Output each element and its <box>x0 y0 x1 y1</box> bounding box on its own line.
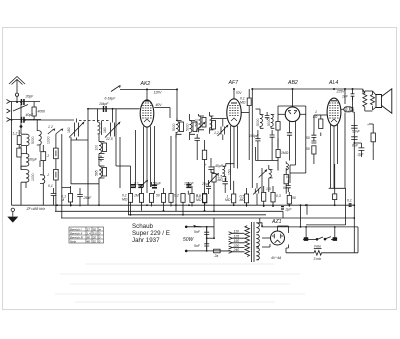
IF transformer 3 <box>255 109 280 161</box>
top line cap <box>351 89 355 100</box>
resistor 4000 <box>32 107 36 116</box>
svg-text:52: 52 <box>93 239 97 243</box>
svg-text:Netz: Netz <box>70 239 76 243</box>
vertical right of AK2 <box>176 89 178 120</box>
svg-text:1000: 1000 <box>31 173 35 181</box>
trimmer 6-18 <box>111 86 120 92</box>
capacitor 0.1a <box>131 184 136 186</box>
resistor R-in <box>17 136 21 145</box>
svg-text:5000: 5000 <box>186 123 190 131</box>
misc verticals <box>128 164 334 227</box>
extra caps on buses <box>281 204 352 209</box>
svg-text:0,2: 0,2 <box>174 194 179 198</box>
svg-text:46: 46 <box>87 239 91 243</box>
coil T3b <box>271 115 273 129</box>
coil choke <box>222 166 226 176</box>
svg-text:3 mb: 3 mb <box>314 257 322 261</box>
svg-text:AZ1: AZ1 <box>271 219 282 225</box>
coil T1b <box>190 121 192 135</box>
var arrow AK2 cathode <box>140 180 148 187</box>
wires <box>176 118 178 121</box>
svg-text:4V~4A: 4V~4A <box>271 256 282 260</box>
svg-text:100: 100 <box>95 145 99 151</box>
svg-text:J: J <box>46 154 49 158</box>
svg-text:ZF=468 kHz: ZF=468 kHz <box>26 207 46 211</box>
coil L3 <box>21 170 29 183</box>
wire <box>10 101 40 103</box>
resistor grid stopper <box>319 119 323 129</box>
svg-text:5nF: 5nF <box>194 244 201 248</box>
svg-text:240: 240 <box>233 248 240 252</box>
tube AL4 <box>327 98 341 126</box>
svg-text:AF7: AF7 <box>228 80 240 86</box>
tube AB2 <box>285 107 300 122</box>
coil L7 <box>99 142 101 154</box>
bus 3 <box>128 214 266 216</box>
resistor <box>312 146 316 154</box>
capacitor 100p <box>255 130 260 145</box>
svg-text:40V: 40V <box>156 103 163 107</box>
svg-text:+: + <box>205 163 207 167</box>
svg-text:50: 50 <box>306 147 310 151</box>
capacitor <box>265 112 270 120</box>
svg-text:0,65: 0,65 <box>345 107 355 113</box>
svg-text:160: 160 <box>103 127 107 133</box>
antenna <box>9 77 25 94</box>
svg-text:2a: 2a <box>214 254 219 258</box>
svg-text:5000: 5000 <box>31 136 35 144</box>
svg-text:20pF: 20pF <box>25 95 35 99</box>
svg-text:25nF: 25nF <box>83 196 93 200</box>
resistor <box>169 194 173 203</box>
coil L6 <box>98 122 100 134</box>
wire left vertical <box>11 102 13 206</box>
AZ1 <box>271 231 285 245</box>
svg-text:5nF: 5nF <box>194 230 201 234</box>
AZ1 bottom wire <box>286 245 289 253</box>
B+ top bus <box>234 89 363 188</box>
resistor <box>276 122 280 131</box>
svg-text:150: 150 <box>228 169 232 175</box>
bus 2 <box>55 210 283 212</box>
capacitor 5n <box>286 180 291 192</box>
capacitor 40uF el <box>208 158 213 172</box>
coil 5000 <box>371 133 375 142</box>
capacitor 50 <box>270 130 275 140</box>
wires below <box>131 202 205 215</box>
svg-text:5n: 5n <box>283 186 287 190</box>
bottom right rect <box>278 227 359 255</box>
resistor <box>149 194 153 203</box>
svg-text:125: 125 <box>234 235 240 239</box>
svg-text:70V: 70V <box>236 91 243 95</box>
svg-text:50: 50 <box>156 194 160 198</box>
caps 5nF <box>204 227 209 244</box>
var arrow small <box>259 170 267 178</box>
capacitor <box>311 141 316 143</box>
svg-text:1 2: 1 2 <box>48 125 53 129</box>
cathode oval <box>344 107 353 112</box>
wires <box>97 109 99 122</box>
capacitor 0.5 <box>51 188 57 205</box>
field box <box>329 187 346 189</box>
svg-text:AK2: AK2 <box>140 81 151 87</box>
switch blade mains <box>194 225 201 227</box>
svg-text:kΩ: kΩ <box>313 115 318 119</box>
right edge <box>357 227 359 253</box>
table <box>69 227 104 243</box>
resistor <box>202 194 206 203</box>
variable capacitor trim <box>218 125 229 136</box>
bus 4 <box>61 217 355 219</box>
vertical right of AL4 <box>352 96 354 112</box>
capacitor right bus <box>349 204 352 206</box>
svg-text:5000: 5000 <box>267 118 271 126</box>
svg-text:150: 150 <box>234 239 240 243</box>
bottom row left caps <box>51 186 83 207</box>
svg-text:MΩ: MΩ <box>240 101 246 105</box>
taps <box>229 232 233 254</box>
svg-text:AB2: AB2 <box>287 80 298 86</box>
coil L8 <box>99 166 101 178</box>
svg-text:50: 50 <box>306 136 310 140</box>
osc coils <box>98 109 121 205</box>
resistor 0.1M <box>128 194 132 203</box>
wire AF7 pins <box>230 126 232 190</box>
svg-text:MΩ: MΩ <box>218 178 224 182</box>
wires <box>39 145 41 152</box>
switch S1 <box>48 129 55 134</box>
svg-text:8µF: 8µF <box>352 143 359 147</box>
capacitor 2uF det <box>281 207 284 209</box>
coil L2 <box>21 154 29 167</box>
AZ1 details <box>259 218 289 247</box>
svg-text:1MΩ: 1MΩ <box>281 151 289 155</box>
resistor 1M <box>139 194 143 203</box>
capacitor 50n <box>311 131 316 141</box>
volume pot <box>212 174 216 183</box>
svg-text:1M: 1M <box>134 194 139 198</box>
svg-text:+: + <box>367 123 369 127</box>
speaker wires <box>363 89 376 111</box>
tuning gang <box>62 109 120 205</box>
left antenna coils <box>17 104 74 205</box>
resistor <box>271 192 275 202</box>
capacitor 10n <box>206 180 211 194</box>
resistor row <box>128 126 206 215</box>
output transformer <box>363 89 375 107</box>
svg-text:0,1: 0,1 <box>48 184 53 188</box>
svg-text:2µF: 2µF <box>285 208 293 212</box>
speaker <box>376 89 392 113</box>
coil det <box>269 170 273 178</box>
svg-text:6-18µF: 6-18µF <box>105 97 117 101</box>
gang dashed link <box>79 120 110 122</box>
transformer power <box>245 222 260 262</box>
svg-text:1: 1 <box>315 110 317 114</box>
resistor right <box>333 194 337 200</box>
coil T3a <box>260 115 262 129</box>
svg-text:2µF: 2µF <box>357 153 365 157</box>
svg-text:0,1: 0,1 <box>134 182 139 186</box>
svg-text:565: 565 <box>95 170 99 176</box>
svg-text:0,3: 0,3 <box>276 194 281 198</box>
mid line <box>303 238 316 240</box>
wires <box>20 146 22 148</box>
capacitor 100 <box>186 184 191 186</box>
svg-text:M: M <box>61 198 64 202</box>
svg-text:0,1: 0,1 <box>347 199 352 203</box>
resistor <box>244 194 248 203</box>
svg-text:5000: 5000 <box>256 118 260 126</box>
switch blade <box>13 105 28 112</box>
svg-text:50W: 50W <box>183 237 195 243</box>
fuse zigzag <box>314 250 321 255</box>
mains switch <box>185 227 231 251</box>
AK2 lower wiring <box>116 109 151 194</box>
resistor <box>181 194 185 203</box>
capacitor 20pF <box>21 99 25 105</box>
capacitor 25uF <box>223 178 228 187</box>
svg-text:100pF: 100pF <box>184 182 195 186</box>
coil T1a <box>176 121 178 135</box>
AF7 surround <box>203 89 292 211</box>
tube AF7 <box>227 99 241 127</box>
capacitor 100 <box>195 134 200 144</box>
variable capacitor VC1 <box>69 122 84 137</box>
AB2 pin cap <box>287 133 292 135</box>
band switch coils <box>37 120 63 218</box>
svg-text:1nF: 1nF <box>342 95 349 99</box>
svg-text:160: 160 <box>67 127 71 133</box>
svg-text:120V: 120V <box>154 90 163 94</box>
resistor mid column <box>140 89 306 187</box>
ground bus <box>12 204 356 206</box>
svg-text:50nF: 50nF <box>352 130 361 134</box>
resistor <box>203 194 207 203</box>
contact box B <box>54 169 59 180</box>
svg-text:1000: 1000 <box>47 136 51 144</box>
heater top line <box>278 226 359 228</box>
svg-text:10kpF: 10kpF <box>99 102 109 106</box>
resistor tall <box>284 174 288 183</box>
coil T2b <box>210 116 212 130</box>
svg-text:30µF: 30µF <box>29 158 38 162</box>
AK2 plate line <box>120 88 177 90</box>
resistor k <box>232 194 236 203</box>
AB2 wiring <box>256 106 306 192</box>
caps stack <box>351 126 357 129</box>
verticals <box>305 227 307 238</box>
coil T2a <box>199 116 201 130</box>
AB2 side stubs <box>278 113 285 115</box>
resistor w <box>287 195 291 204</box>
svg-text:MΩ: MΩ <box>196 198 202 202</box>
input terminals <box>7 100 11 122</box>
svg-text:20µF: 20µF <box>201 182 211 186</box>
coil M3 <box>40 175 45 184</box>
capacitor 10kpF <box>103 106 107 112</box>
resistor R-a <box>68 194 72 203</box>
wire pins <box>143 127 145 188</box>
resistor box2 <box>17 148 21 157</box>
switch blades <box>318 237 332 240</box>
svg-text:50: 50 <box>292 196 296 200</box>
svg-text:12,5: 12,5 <box>106 137 113 141</box>
wires <box>259 109 261 115</box>
mains detail <box>185 218 244 253</box>
svg-text:MΩ: MΩ <box>225 198 231 202</box>
fuse box Sa <box>214 249 221 253</box>
resistor 1M <box>276 150 280 158</box>
contact box A <box>54 148 59 159</box>
resistor <box>190 194 194 203</box>
svg-text:MΩ: MΩ <box>122 198 128 202</box>
IF transformer 2 <box>196 112 228 140</box>
svg-text:J: J <box>46 173 49 177</box>
capacitor 40pF <box>21 117 25 123</box>
svg-text:MΩ: MΩ <box>240 198 246 202</box>
svg-text:225V: 225V <box>336 90 346 94</box>
capacitor 0.1b <box>138 184 143 186</box>
wires <box>199 112 210 134</box>
wire AL4 pins <box>330 125 332 189</box>
capacitor var tone <box>253 187 261 195</box>
svg-text:40pF: 40pF <box>26 113 35 117</box>
table text <box>70 227 102 243</box>
svg-text:5000: 5000 <box>195 119 199 127</box>
svg-text:Jahr 1937: Jahr 1937 <box>132 237 160 244</box>
coil M1 <box>37 131 42 145</box>
svg-text:1,2: 1,2 <box>13 132 18 136</box>
coil L1 <box>21 134 29 145</box>
wires <box>62 137 99 188</box>
capacitor el <box>152 185 157 187</box>
svg-text:100pF: 100pF <box>249 134 260 138</box>
tube AK2 <box>140 100 154 127</box>
variable capacitor VC2 <box>105 122 120 137</box>
capacitor pad <box>98 156 104 162</box>
svg-text:1,2: 1,2 <box>214 131 219 135</box>
svg-text:AL4: AL4 <box>328 80 338 86</box>
svg-text:4000: 4000 <box>38 110 46 114</box>
AL4 zone <box>306 89 375 253</box>
svg-text:Schaub: Schaub <box>132 223 154 230</box>
resistor M2 <box>41 152 46 161</box>
AK2 grid line <box>88 108 140 110</box>
svg-text:Fete: Fete <box>314 244 321 248</box>
capacitor 25nF <box>77 188 83 207</box>
resistor <box>161 194 165 203</box>
ghost text rows <box>55 263 305 303</box>
svg-text:40µF: 40µF <box>215 164 224 168</box>
svg-text:110: 110 <box>234 230 240 234</box>
svg-text:5000: 5000 <box>172 123 176 131</box>
resistor 0.1M plate <box>247 98 251 106</box>
bottom line <box>286 252 314 254</box>
IF transformer 1 <box>176 114 200 160</box>
resistor <box>212 121 216 130</box>
wire hline to band coils <box>25 119 74 121</box>
ground <box>11 208 14 211</box>
resistor <box>262 192 266 201</box>
